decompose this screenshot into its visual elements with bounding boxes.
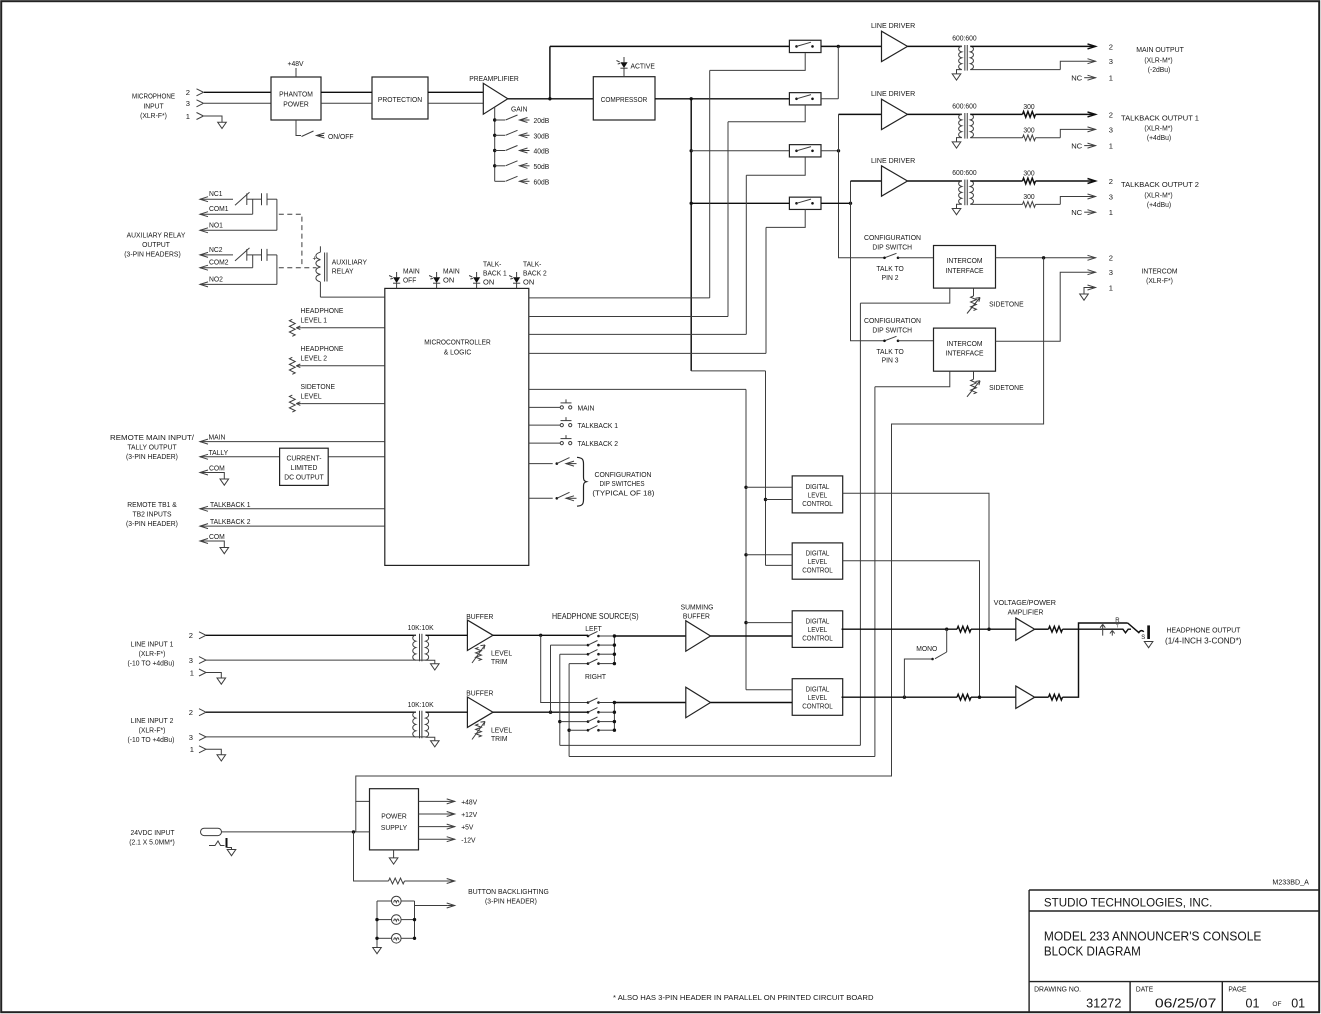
svg-text:POWER: POWER <box>381 811 407 820</box>
svg-text:(XLR-F*): (XLR-F*) <box>139 726 166 735</box>
svg-text:OF: OF <box>1272 1001 1281 1008</box>
svg-text:BLOCK DIAGRAM: BLOCK DIAGRAM <box>1044 944 1141 959</box>
svg-text:BUFFER: BUFFER <box>683 612 711 621</box>
svg-text:MAIN: MAIN <box>403 266 420 275</box>
svg-text:10K:10K: 10K:10K <box>408 623 434 632</box>
svg-text:MICROPHONE: MICROPHONE <box>132 92 175 101</box>
svg-text:CONTROL: CONTROL <box>802 501 833 508</box>
svg-text:COMPRESSOR: COMPRESSOR <box>601 95 648 104</box>
svg-text:300: 300 <box>1023 126 1034 135</box>
svg-text:1: 1 <box>1109 208 1113 217</box>
svg-text:ON: ON <box>483 277 494 286</box>
svg-text:NC: NC <box>1071 74 1082 83</box>
svg-text:1: 1 <box>1109 142 1113 151</box>
svg-text:TALLY OUTPUT: TALLY OUTPUT <box>127 442 177 451</box>
svg-text:CONTROL: CONTROL <box>802 636 833 643</box>
svg-text:LINE INPUT 1: LINE INPUT 1 <box>131 639 174 648</box>
svg-text:DIGITAL: DIGITAL <box>806 484 830 491</box>
svg-text:LEVEL 2: LEVEL 2 <box>301 354 328 363</box>
svg-text:(XLR-M*): (XLR-M*) <box>1144 190 1173 199</box>
svg-text:CONFIGURATION: CONFIGURATION <box>864 316 921 325</box>
svg-text:T: T <box>1116 624 1119 629</box>
svg-text:DRAWING NO.: DRAWING NO. <box>1034 984 1081 993</box>
svg-text:(+4dBu): (+4dBu) <box>1147 200 1172 209</box>
svg-text:ACTIVE: ACTIVE <box>631 61 655 70</box>
svg-text:PROTECTION: PROTECTION <box>378 95 422 104</box>
svg-text:2: 2 <box>1109 110 1113 119</box>
svg-text:INTERCOM: INTERCOM <box>946 339 982 348</box>
svg-text:RELAY: RELAY <box>332 267 354 276</box>
svg-text:LIMITED: LIMITED <box>291 463 318 472</box>
svg-text:NC2: NC2 <box>209 245 223 254</box>
svg-text:M233BD_A: M233BD_A <box>1272 877 1309 886</box>
svg-text:3: 3 <box>189 733 193 742</box>
svg-text:50dB: 50dB <box>534 162 550 171</box>
svg-text:HEADPHONE: HEADPHONE <box>301 306 344 315</box>
svg-text:60dB: 60dB <box>534 177 550 186</box>
svg-text:HEADPHONE SOURCE(S): HEADPHONE SOURCE(S) <box>552 612 639 621</box>
svg-text:TALKBACK 1: TALKBACK 1 <box>210 500 251 509</box>
svg-text:MAIN: MAIN <box>209 433 226 442</box>
svg-text:MAIN: MAIN <box>578 403 595 412</box>
svg-text:NC1: NC1 <box>209 189 223 198</box>
svg-text:TALKBACK 1: TALKBACK 1 <box>578 421 619 430</box>
svg-text:TALKBACK 2: TALKBACK 2 <box>210 517 251 526</box>
svg-text:LINE DRIVER: LINE DRIVER <box>871 89 916 98</box>
svg-text:OUTPUT: OUTPUT <box>142 240 170 249</box>
svg-text:CONFIGURATION: CONFIGURATION <box>595 470 652 479</box>
svg-text:+48V: +48V <box>461 798 478 807</box>
svg-text:+: + <box>312 256 316 263</box>
svg-text:OFF: OFF <box>403 275 417 284</box>
svg-text:BACK 1: BACK 1 <box>483 268 507 277</box>
svg-text:S: S <box>1141 635 1145 641</box>
svg-text:1: 1 <box>190 745 194 754</box>
svg-text:31272: 31272 <box>1086 997 1121 1011</box>
svg-text:40dB: 40dB <box>534 147 550 156</box>
svg-text:MICROCONTROLLER: MICROCONTROLLER <box>424 337 491 346</box>
svg-text:20dB: 20dB <box>534 116 550 125</box>
svg-text:(TYPICAL OF 18): (TYPICAL OF 18) <box>592 488 654 497</box>
svg-text:1: 1 <box>190 668 194 677</box>
svg-text:* ALSO HAS 3-PIN HEADER IN PAR: * ALSO HAS 3-PIN HEADER IN PARALLEL ON P… <box>613 993 874 1002</box>
svg-text:DIP SWITCHES: DIP SWITCHES <box>600 479 645 488</box>
svg-text:SUMMING: SUMMING <box>681 602 714 611</box>
svg-text:TALK-: TALK- <box>483 259 502 268</box>
svg-text:30dB: 30dB <box>534 131 550 140</box>
svg-text:600:600: 600:600 <box>952 168 977 177</box>
svg-text:DIP SWITCH: DIP SWITCH <box>872 325 912 334</box>
svg-text:DATE: DATE <box>1136 984 1153 993</box>
svg-text:600:600: 600:600 <box>952 102 977 111</box>
svg-text:NO2: NO2 <box>209 274 223 283</box>
svg-text:DC OUTPUT: DC OUTPUT <box>284 472 324 481</box>
svg-text:LINE INPUT 2: LINE INPUT 2 <box>131 716 174 725</box>
svg-text:(3-PIN HEADER): (3-PIN HEADER) <box>485 897 537 906</box>
svg-text:DIGITAL: DIGITAL <box>806 687 830 694</box>
svg-text:(3-PIN HEADER): (3-PIN HEADER) <box>126 519 178 528</box>
svg-text:& LOGIC: & LOGIC <box>444 347 472 356</box>
svg-text:INTERFACE: INTERFACE <box>946 266 984 275</box>
svg-text:RIGHT: RIGHT <box>585 672 606 681</box>
svg-text:3: 3 <box>1109 268 1113 277</box>
svg-text:2: 2 <box>1109 177 1113 186</box>
svg-text:DIGITAL: DIGITAL <box>806 551 830 558</box>
svg-text:TRIM: TRIM <box>491 657 508 666</box>
svg-text:3: 3 <box>1109 57 1113 66</box>
svg-text:LEVEL: LEVEL <box>808 695 827 702</box>
svg-text:+5V: +5V <box>461 823 474 832</box>
svg-text:SIDETONE: SIDETONE <box>989 300 1024 309</box>
svg-text:DIGITAL: DIGITAL <box>806 619 830 626</box>
svg-text:300: 300 <box>1023 169 1034 178</box>
svg-text:LEVEL: LEVEL <box>808 559 827 566</box>
svg-text:10K:10K: 10K:10K <box>408 700 434 709</box>
svg-text:2: 2 <box>1109 42 1113 51</box>
svg-text:(-10 TO +4dBu): (-10 TO +4dBu) <box>128 735 175 744</box>
svg-text:ON: ON <box>523 277 534 286</box>
svg-text:TALKBACK OUTPUT 1: TALKBACK OUTPUT 1 <box>1121 114 1199 123</box>
svg-text:PHANTOM: PHANTOM <box>279 90 313 99</box>
svg-text:(3-PIN HEADERS): (3-PIN HEADERS) <box>124 250 181 259</box>
svg-text:TALKBACK OUTPUT 2: TALKBACK OUTPUT 2 <box>1121 180 1199 189</box>
svg-text:(XLR-M*): (XLR-M*) <box>1144 55 1173 64</box>
svg-text:1: 1 <box>1109 74 1113 83</box>
svg-text:TB2 INPUTS: TB2 INPUTS <box>132 509 171 518</box>
svg-text:(XLR-F*): (XLR-F*) <box>140 111 167 120</box>
svg-text:SIDETONE: SIDETONE <box>989 383 1024 392</box>
svg-text:NC: NC <box>1071 141 1082 150</box>
svg-text:TRIM: TRIM <box>491 734 508 743</box>
svg-text:NO1: NO1 <box>209 220 223 229</box>
svg-text:LEVEL: LEVEL <box>808 492 827 499</box>
svg-text:2: 2 <box>186 88 190 97</box>
svg-text:BUTTON BACKLIGHTING: BUTTON BACKLIGHTING <box>468 887 549 896</box>
svg-text:LEVEL 1: LEVEL 1 <box>301 316 328 325</box>
svg-text:(-2dBu): (-2dBu) <box>1148 65 1171 74</box>
svg-text:24VDC INPUT: 24VDC INPUT <box>131 828 175 837</box>
svg-text:01: 01 <box>1291 997 1305 1011</box>
svg-text:TALKBACK 2: TALKBACK 2 <box>578 439 619 448</box>
svg-text:COM: COM <box>209 532 225 541</box>
svg-text:BACK 2: BACK 2 <box>523 268 547 277</box>
svg-text:300: 300 <box>1023 192 1034 201</box>
svg-text:INTERCOM: INTERCOM <box>1141 266 1177 275</box>
svg-text:BUFFER: BUFFER <box>466 612 494 621</box>
svg-text:01: 01 <box>1246 997 1260 1011</box>
svg-text:3: 3 <box>1109 125 1113 134</box>
svg-text:POWER: POWER <box>283 100 309 109</box>
svg-text:COM2: COM2 <box>209 258 229 267</box>
svg-text:INTERFACE: INTERFACE <box>946 348 984 357</box>
svg-text:(2.1 X 5.0MM*): (2.1 X 5.0MM*) <box>129 838 175 847</box>
svg-text:ON/OFF: ON/OFF <box>328 132 354 141</box>
svg-text:LEVEL: LEVEL <box>808 627 827 634</box>
svg-text:GAIN: GAIN <box>511 105 528 114</box>
svg-text:LEFT: LEFT <box>585 624 602 633</box>
svg-text:PREAMPLIFIER: PREAMPLIFIER <box>469 74 519 83</box>
svg-text:CONFIGURATION: CONFIGURATION <box>864 233 921 242</box>
svg-text:MONO: MONO <box>916 644 937 653</box>
svg-text:SUPPLY: SUPPLY <box>381 823 407 832</box>
svg-text:AUXILIARY RELAY: AUXILIARY RELAY <box>127 231 186 240</box>
svg-text:2: 2 <box>189 708 193 717</box>
svg-text:+12V: +12V <box>461 810 478 819</box>
svg-text:-12V: -12V <box>461 835 476 844</box>
svg-text:MAIN: MAIN <box>443 266 460 275</box>
svg-text:NC: NC <box>1071 208 1082 217</box>
svg-text:REMOTE TB1 &: REMOTE TB1 & <box>127 500 177 509</box>
svg-text:(XLR-M*): (XLR-M*) <box>1144 124 1173 133</box>
svg-text:(XLR-F*): (XLR-F*) <box>139 649 166 658</box>
svg-text:LINE DRIVER: LINE DRIVER <box>871 21 916 30</box>
svg-text:CONTROL: CONTROL <box>802 567 833 574</box>
svg-text:TALLY: TALLY <box>209 448 229 457</box>
svg-text:MODEL 233 ANNOUNCER'S CONSOLE: MODEL 233 ANNOUNCER'S CONSOLE <box>1044 929 1262 944</box>
svg-text:DIP SWITCH: DIP SWITCH <box>872 242 912 251</box>
svg-text:HEADPHONE OUTPUT: HEADPHONE OUTPUT <box>1167 626 1241 635</box>
svg-text:INTERCOM: INTERCOM <box>946 256 982 265</box>
svg-text:REMOTE MAIN INPUT/: REMOTE MAIN INPUT/ <box>110 433 195 442</box>
svg-text:1: 1 <box>1109 283 1113 292</box>
svg-text:AUXILIARY: AUXILIARY <box>332 257 367 266</box>
svg-text:COM: COM <box>209 464 225 473</box>
svg-text:VOLTAGE/POWER: VOLTAGE/POWER <box>994 598 1057 607</box>
svg-text:BUFFER: BUFFER <box>466 689 494 698</box>
svg-text:TALK-: TALK- <box>523 259 542 268</box>
svg-text:CONTROL: CONTROL <box>802 703 833 710</box>
svg-text:1: 1 <box>186 112 190 121</box>
svg-text:PIN 3: PIN 3 <box>882 355 899 364</box>
svg-text:MAIN OUTPUT: MAIN OUTPUT <box>1136 45 1184 54</box>
svg-text:3: 3 <box>1109 192 1113 201</box>
svg-text:TALK TO: TALK TO <box>876 264 903 273</box>
svg-text:PIN 2: PIN 2 <box>882 273 899 282</box>
svg-text:COM1: COM1 <box>209 204 229 213</box>
svg-text:3: 3 <box>186 99 190 108</box>
svg-text:HEADPHONE: HEADPHONE <box>301 344 344 353</box>
svg-text:LEVEL: LEVEL <box>301 391 322 400</box>
svg-text:AMPLIFIER: AMPLIFIER <box>1008 607 1044 616</box>
svg-text:SIDETONE: SIDETONE <box>301 382 336 391</box>
svg-text:(XLR-F*): (XLR-F*) <box>1146 276 1173 285</box>
svg-text:PAGE: PAGE <box>1228 984 1246 993</box>
svg-text:(3-PIN HEADER): (3-PIN HEADER) <box>126 452 178 461</box>
svg-text:ON: ON <box>443 275 454 284</box>
svg-text:INPUT: INPUT <box>143 101 164 110</box>
svg-text:300: 300 <box>1023 102 1034 111</box>
svg-text:(+4dBu): (+4dBu) <box>1147 133 1172 142</box>
svg-text:2: 2 <box>189 631 193 640</box>
svg-text:CURRENT-: CURRENT- <box>287 453 322 462</box>
svg-text:STUDIO TECHNOLOGIES, INC.: STUDIO TECHNOLOGIES, INC. <box>1044 896 1213 910</box>
svg-text:06/25/07: 06/25/07 <box>1155 997 1217 1011</box>
svg-text:2: 2 <box>1109 254 1113 263</box>
svg-text:600:600: 600:600 <box>952 34 977 43</box>
svg-text:3: 3 <box>189 656 193 665</box>
svg-text:+48V: +48V <box>288 59 305 68</box>
svg-text:LINE DRIVER: LINE DRIVER <box>871 156 916 165</box>
svg-text:(1/4-INCH 3-COND*): (1/4-INCH 3-COND*) <box>1165 637 1242 646</box>
svg-text:(-10 TO +4dBu): (-10 TO +4dBu) <box>128 658 175 667</box>
